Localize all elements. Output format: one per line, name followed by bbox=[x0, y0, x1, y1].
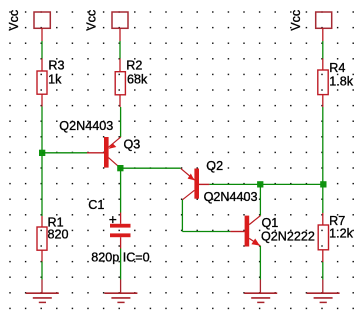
svg-text:Q2N4403: Q2N4403 bbox=[59, 119, 113, 133]
svg-text:Q2N4403: Q2N4403 bbox=[204, 190, 258, 204]
resistor R4 bbox=[318, 59, 328, 108]
power symbol Vcc (left) bbox=[7, 10, 50, 31]
wire Q2 base to right column bbox=[209, 183, 322, 185]
svg-text:Vcc: Vcc bbox=[85, 10, 99, 31]
capacitor C1 bbox=[109, 213, 130, 249]
transistor Q2 (PNP Q2N4403, mirrored) bbox=[181, 168, 210, 199]
wire junction to Q2 emitter bbox=[120, 167, 181, 169]
label R3 1k bbox=[48, 59, 64, 87]
wire C1 to ground bbox=[120, 249, 122, 280]
svg-text:1.2k: 1.2k bbox=[329, 227, 354, 241]
label R7 1.2k bbox=[329, 214, 354, 241]
wire junction down to Q1 collector bbox=[259, 184, 261, 215]
svg-text:1.8k: 1.8k bbox=[329, 75, 354, 89]
node junction Q2 base / Q1 collector bbox=[257, 181, 263, 187]
wire junction to Q3 base bbox=[42, 152, 87, 154]
wire R4 down right column bbox=[322, 107, 324, 213]
wire R3 to R1 (left column) bbox=[41, 107, 43, 217]
svg-text:Q1: Q1 bbox=[262, 216, 279, 230]
ground (under Q1) bbox=[244, 280, 277, 303]
ground (right) bbox=[307, 280, 340, 303]
wire R1 to ground bbox=[41, 262, 43, 280]
label R4 1.8k bbox=[329, 61, 354, 89]
svg-text:R4: R4 bbox=[329, 61, 345, 75]
svg-text:Vcc: Vcc bbox=[289, 10, 303, 31]
node junction right column bbox=[320, 181, 326, 187]
resistor R2 bbox=[115, 59, 125, 108]
label R1 820 bbox=[48, 216, 69, 242]
resistor R3 bbox=[37, 59, 47, 107]
wire to Q1 base bbox=[182, 231, 230, 233]
wire R7 to ground bbox=[322, 262, 324, 280]
svg-text:Q2: Q2 bbox=[206, 159, 223, 173]
svg-text:Vcc: Vcc bbox=[7, 10, 21, 31]
wire Vcc left pin lead bbox=[41, 28, 43, 41]
resistor R7 bbox=[318, 213, 328, 262]
wire junction down to C1 bbox=[120, 168, 122, 212]
resistor R1 bbox=[37, 216, 47, 262]
svg-text:820: 820 bbox=[48, 228, 69, 242]
ground (left) bbox=[26, 280, 59, 303]
wire Vcc left to R3 bbox=[41, 41, 43, 59]
svg-text:Q3: Q3 bbox=[124, 137, 141, 151]
svg-text:R2: R2 bbox=[126, 59, 142, 73]
node junction left column / Q3 base bbox=[39, 150, 45, 156]
svg-text:R3: R3 bbox=[48, 59, 64, 73]
ground (middle-left under C1) bbox=[104, 280, 137, 303]
power symbol Vcc (middle) bbox=[85, 10, 128, 31]
svg-text:C1: C1 bbox=[88, 198, 104, 212]
svg-text:Q2N2222: Q2N2222 bbox=[261, 229, 315, 243]
wire Vcc right pin lead bbox=[322, 28, 324, 41]
node junction Q3 collector / C1 / Q2 emitter bbox=[117, 165, 123, 171]
wire Vcc middle to R2 bbox=[119, 41, 121, 59]
label R2 68k bbox=[126, 59, 148, 87]
transistor Q3 (PNP Q2N4403) bbox=[87, 137, 121, 168]
svg-text:1k: 1k bbox=[48, 73, 62, 87]
wire Vcc right to R4 bbox=[322, 41, 324, 59]
svg-text:68k: 68k bbox=[127, 73, 148, 87]
wire Vcc middle pin lead bbox=[119, 28, 121, 41]
power symbol Vcc (right) bbox=[289, 10, 332, 31]
wire Q1 emitter to ground bbox=[259, 246, 261, 280]
wire Q2 collector down bbox=[181, 200, 183, 232]
wire R2 to Q3 emitter bbox=[120, 107, 122, 137]
transistor Q1 (NPN Q2N2222) bbox=[230, 216, 260, 247]
